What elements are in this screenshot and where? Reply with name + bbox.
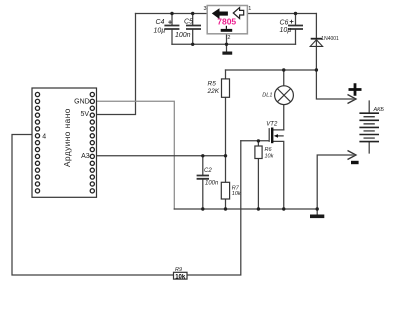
svg-text:R5: R5 — [208, 80, 217, 87]
svg-text:4: 4 — [42, 134, 46, 141]
svg-text:DL1: DL1 — [262, 93, 272, 99]
svg-text:10k: 10k — [265, 154, 274, 160]
svg-text:A3: A3 — [81, 153, 90, 160]
svg-text:АКБ: АКБ — [373, 107, 385, 113]
svg-text:C4: C4 — [156, 19, 165, 26]
svg-text:100n: 100n — [175, 32, 191, 39]
svg-text:Ардуино нано: Ардуино нано — [63, 108, 72, 167]
svg-text:+: + — [289, 17, 294, 26]
svg-text:10k: 10k — [232, 191, 241, 197]
svg-text:5V: 5V — [80, 111, 89, 118]
svg-text:C6: C6 — [280, 20, 289, 27]
svg-text:100n: 100n — [205, 180, 219, 186]
svg-text:1N4001: 1N4001 — [321, 36, 339, 42]
svg-text:R9: R9 — [175, 267, 182, 273]
svg-text:10k: 10k — [175, 275, 186, 281]
svg-text:+: + — [168, 17, 173, 26]
svg-text:1: 1 — [248, 6, 251, 12]
svg-text:2: 2 — [227, 35, 230, 41]
svg-text:C2: C2 — [204, 168, 212, 174]
svg-text:22K: 22K — [207, 88, 220, 95]
svg-text:3: 3 — [204, 6, 207, 12]
svg-text:GND: GND — [74, 99, 90, 106]
svg-text:C5: C5 — [184, 19, 193, 26]
svg-text:10µ: 10µ — [280, 27, 292, 34]
svg-text:10µ: 10µ — [154, 28, 166, 35]
svg-text:7805: 7805 — [217, 17, 236, 27]
svg-text:VT2: VT2 — [266, 121, 278, 127]
svg-text:R6: R6 — [265, 147, 273, 153]
